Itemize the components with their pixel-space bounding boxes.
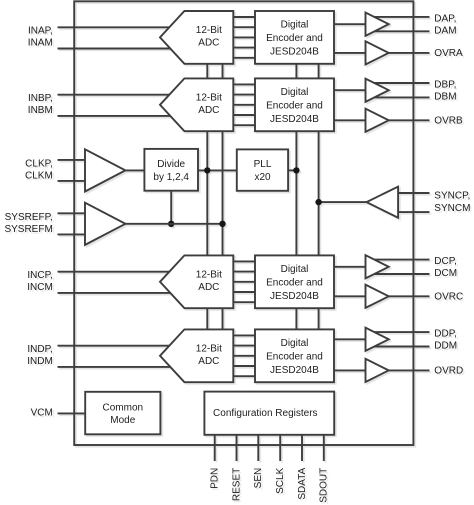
svg-text:SYSREFP,: SYSREFP,	[5, 212, 53, 223]
wire: OVRA output	[380, 52, 430, 54]
wire: SYSREFP/SYSREFM input pair	[58, 212, 87, 214]
svg-text:ADC: ADC	[198, 356, 219, 367]
chip outline (top-level block border)	[74, 1, 413, 445]
svg-text:CLKM: CLKM	[25, 171, 53, 182]
encoder A (Digital Encoder and JESD204B)	[255, 11, 334, 64]
wire: OVRC output	[380, 295, 430, 297]
output buffer DAP/DAM (LVDS driver)	[366, 13, 389, 36]
SYSREF input buffer	[85, 203, 125, 245]
wire: encoder C to OVRC buffer	[334, 295, 367, 297]
svg-text:SYNCP,: SYNCP,	[434, 191, 470, 202]
svg-text:x20: x20	[254, 172, 271, 183]
wire: ADC clock/sysref vertical bus segment 3	[206, 308, 208, 329]
wire: encoder clock/sync vertical bus segment 1	[295, 64, 297, 79]
wire: ADC C to encoder C data bus (5 lines)	[233, 260, 255, 262]
svg-text:Divide: Divide	[157, 159, 185, 170]
clock input buffer (CLK receiver)	[85, 149, 125, 191]
wire: SYNCP/SYNCM input pair	[390, 192, 430, 194]
svg-text:DDM: DDM	[434, 341, 457, 352]
svg-text:INDM: INDM	[27, 356, 53, 367]
output buffer OVRB (overrange driver)	[366, 109, 389, 132]
ADC D (12-Bit ADC)	[160, 329, 233, 382]
wire: VCM input	[58, 412, 87, 414]
output buffer OVRC (overrange driver)	[366, 285, 389, 308]
svg-text:JESD204B: JESD204B	[270, 365, 319, 376]
wire: ADC clock/sysref vertical bus segment 1	[206, 64, 208, 79]
svg-text:DBM: DBM	[434, 91, 456, 102]
svg-text:Configuration Registers: Configuration Registers	[213, 408, 318, 419]
svg-text:12-Bit: 12-Bit	[196, 269, 222, 280]
svg-text:RESET: RESET	[231, 468, 242, 501]
svg-text:ADC: ADC	[198, 38, 219, 49]
svg-text:DCP,: DCP,	[434, 256, 457, 267]
wire: SEN pin line	[257, 435, 259, 461]
junction: PLL clock to encoder bus	[293, 167, 299, 173]
wire: encoder clock/sync vertical bus segment 2	[295, 131, 297, 255]
wire: SDATA pin line	[301, 435, 303, 461]
wire: PLL output to encoder bus	[288, 169, 296, 171]
wire: SYNC buffer output to encoder bus	[319, 201, 367, 203]
svg-text:INCM: INCM	[27, 282, 53, 293]
wire: clock buffer to divider	[125, 169, 144, 171]
svg-text:INAM: INAM	[28, 38, 53, 49]
wire: SYSREF buffer to ADC bus	[125, 223, 222, 225]
wire: encoder B to DBP/DBM output buffer	[334, 89, 367, 91]
wire: encoder clock/sync vertical bus segment 3	[295, 308, 297, 329]
encoder D (Digital Encoder and JESD204B)	[255, 329, 334, 382]
svg-text:INBP,: INBP,	[28, 93, 53, 104]
ADC C (12-Bit ADC)	[160, 255, 233, 308]
junction: divider on SYSREF net	[168, 221, 174, 227]
svg-text:CLKP,: CLKP,	[25, 158, 53, 169]
svg-text:ADC: ADC	[198, 282, 219, 293]
svg-text:SYNCM: SYNCM	[434, 203, 470, 214]
svg-text:JESD204B: JESD204B	[270, 114, 319, 125]
svg-text:ADC: ADC	[198, 105, 219, 116]
wire: OVRB output	[380, 119, 430, 121]
output buffer DDP/DDM (LVDS driver)	[366, 328, 389, 351]
wire: DDP/DDM differential outputs	[374, 331, 430, 333]
wire: DBP/DBM differential outputs	[374, 82, 430, 84]
svg-text:VCM: VCM	[31, 407, 53, 418]
wire: ADC A to encoder A data bus (5 lines)	[233, 16, 255, 18]
wire: RESET pin line	[236, 435, 238, 461]
svg-text:Encoder and: Encoder and	[266, 277, 323, 288]
common mode block (Common Mode)	[85, 392, 160, 435]
svg-text:INDP,: INDP,	[27, 344, 52, 355]
wire: DCP/DCM differential outputs	[374, 259, 430, 261]
svg-text:DAM: DAM	[434, 25, 456, 36]
svg-text:12-Bit: 12-Bit	[196, 343, 222, 354]
encoder C (Digital Encoder and JESD204B)	[255, 255, 334, 308]
svg-text:SDOUT: SDOUT	[319, 468, 330, 503]
svg-text:Common: Common	[103, 402, 144, 413]
svg-text:SCLK: SCLK	[275, 467, 286, 493]
svg-text:OVRC: OVRC	[434, 291, 463, 302]
wire: divider output to PLL	[198, 169, 237, 171]
svg-text:PLL: PLL	[254, 159, 272, 170]
svg-text:Digital: Digital	[281, 20, 309, 31]
junction: divided clock to ADC bus	[204, 167, 210, 173]
wire: encoder A to OVRA buffer	[334, 52, 367, 54]
svg-text:OVRA: OVRA	[434, 48, 463, 59]
wire: ADC D to encoder D data bus (5 lines)	[233, 334, 255, 336]
svg-text:DBP,: DBP,	[434, 79, 456, 90]
wire: divider to SYSREF net	[170, 191, 172, 224]
SYNC input buffer (receives from right)	[367, 187, 399, 218]
svg-text:Encoder and: Encoder and	[266, 33, 323, 44]
wire: INDP/INDM differential input pair	[58, 345, 183, 347]
svg-text:Digital: Digital	[281, 264, 309, 275]
wire: encoder D to OVRD buffer	[334, 369, 367, 371]
wire: encoder B to OVRB buffer	[334, 119, 367, 121]
svg-text:Digital: Digital	[281, 338, 309, 349]
svg-text:Mode: Mode	[110, 415, 135, 426]
wire: OVRD output	[380, 369, 430, 371]
wire: SCLK pin line	[279, 435, 281, 461]
wire: CLKP/CLKM input pair	[58, 159, 87, 161]
ADC B (12-Bit ADC)	[160, 78, 233, 131]
output buffer OVRD (overrange driver)	[366, 359, 389, 382]
svg-text:12-Bit: 12-Bit	[196, 92, 222, 103]
divider block (Divide by 1,2,4)	[144, 149, 198, 191]
svg-text:by 1,2,4: by 1,2,4	[153, 172, 189, 183]
PLL block (PLL x20)	[237, 149, 288, 190]
wire: INBP/INBM differential input pair	[58, 94, 183, 96]
svg-text:PDN: PDN	[210, 468, 221, 489]
svg-text:JESD204B: JESD204B	[270, 47, 319, 58]
wire: INAP/INAM differential input pair	[58, 26, 183, 28]
output buffer OVRA (overrange driver)	[366, 41, 389, 64]
wire: ADC clock/sysref vertical bus segment 2	[206, 131, 208, 255]
svg-text:SYSREFM: SYSREFM	[4, 224, 52, 235]
svg-text:INBM: INBM	[28, 105, 53, 116]
svg-text:JESD204B: JESD204B	[270, 291, 319, 302]
ADC A (12-Bit ADC)	[160, 11, 233, 64]
wire: encoder C to DCP/DCM output buffer	[334, 266, 367, 268]
wire: DAP/DAM differential outputs	[374, 16, 430, 18]
junction: SYNC to encoder vertical bus	[315, 199, 321, 205]
wire: PDN pin line	[214, 435, 216, 461]
svg-text:Encoder and: Encoder and	[266, 100, 323, 111]
svg-text:DAP,: DAP,	[434, 13, 456, 24]
svg-text:OVRD: OVRD	[434, 366, 463, 377]
svg-text:Encoder and: Encoder and	[266, 351, 323, 362]
output buffer DBP/DBM (LVDS driver)	[366, 79, 389, 102]
svg-text:OVRB: OVRB	[434, 115, 463, 126]
wire: ADC B to encoder B data bus (5 lines)	[233, 83, 255, 85]
wire: SDOUT pin line	[323, 435, 325, 461]
svg-text:DCM: DCM	[434, 268, 457, 279]
svg-text:INAP,: INAP,	[28, 25, 53, 36]
configuration registers block	[204, 392, 334, 435]
svg-text:DDP,: DDP,	[434, 329, 457, 340]
svg-text:Digital: Digital	[281, 87, 309, 98]
wire: INCP/INCM differential input pair	[58, 271, 183, 273]
output buffer DCP/DCM (LVDS driver)	[366, 255, 389, 278]
svg-text:SEN: SEN	[253, 468, 264, 489]
wire: encoder A to DAP/DAM output buffer	[334, 23, 367, 25]
junction: SYSREF to ADC vertical bus	[219, 221, 225, 227]
encoder B (Digital Encoder and JESD204B)	[255, 78, 334, 131]
svg-text:INCP,: INCP,	[27, 270, 52, 281]
wire: encoder D to DDP/DDM output buffer	[334, 338, 367, 340]
svg-text:SDATA: SDATA	[297, 467, 308, 499]
svg-text:12-Bit: 12-Bit	[196, 25, 222, 36]
